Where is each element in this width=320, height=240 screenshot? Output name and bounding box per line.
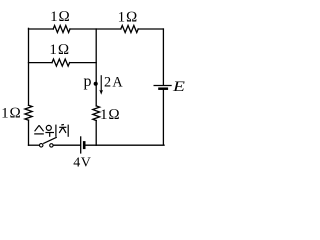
svg-text:A: A: [112, 75, 123, 91]
wire right rail upper: [162, 29, 164, 85]
wire second branch right: [70, 62, 97, 64]
wire top-right segment: [138, 28, 163, 30]
wire battery 4V to bottom-right corner: [85, 144, 164, 146]
svg-text:1Ω: 1Ω: [100, 107, 121, 123]
switch left contact circle: [39, 144, 43, 148]
svg-text:4: 4: [73, 156, 80, 171]
battery 4V short thick plate (negative): [83, 141, 86, 149]
battery E short thick plate (negative): [158, 87, 168, 90]
svg-text:1Ω: 1Ω: [49, 42, 70, 58]
switch right contact circle: [50, 144, 53, 147]
wire left rail upper: [28, 28, 30, 105]
wire top-middle segment: [70, 28, 121, 30]
wire bottom left to switch: [29, 144, 40, 146]
svg-text:V: V: [81, 156, 91, 171]
battery 4V long plate (positive): [80, 136, 82, 153]
svg-text:1Ω: 1Ω: [118, 9, 139, 25]
wire middle vertical lower: [95, 121, 97, 146]
svg-text:1Ω: 1Ω: [1, 106, 22, 122]
resistor 1Ω left-rail vertical zigzag: [25, 105, 32, 120]
switch blade (open): [43, 137, 57, 143]
wire middle vertical upper: [95, 29, 97, 106]
battery E long plate (positive): [154, 85, 172, 87]
label 스위치 (switch, drawn as strokes): [34, 125, 68, 137]
svg-text:1Ω: 1Ω: [50, 9, 71, 25]
current arrow 2A (downward): [99, 75, 103, 95]
svg-text:2: 2: [104, 75, 111, 91]
resistor 1Ω middle vertical zigzag: [93, 106, 100, 121]
wire left rail lower: [28, 120, 30, 145]
wire switch to battery 4V: [53, 144, 80, 146]
resistor 1Ω top-left zigzag: [53, 26, 70, 33]
resistor 1Ω second-branch zigzag: [52, 59, 70, 66]
wire top-left segment: [29, 28, 54, 30]
label battery E (italic): [172, 78, 185, 94]
svg-text:E: E: [172, 78, 185, 94]
node p junction dot: [94, 82, 98, 86]
wire second branch left: [29, 62, 53, 64]
svg-text:p: p: [84, 73, 92, 90]
resistor 1Ω top-right zigzag: [121, 26, 138, 33]
wire right rail lower: [162, 90, 164, 145]
